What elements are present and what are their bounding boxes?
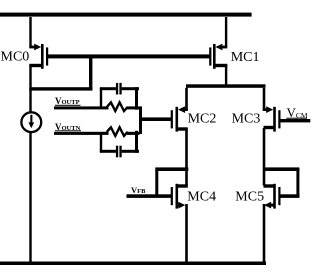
svg-text:VOUTN: VOUTN xyxy=(55,122,81,132)
svg-text:MC1: MC1 xyxy=(231,50,260,65)
svg-text:MC0: MC0 xyxy=(1,50,30,65)
svg-text:MC4: MC4 xyxy=(187,189,216,204)
svg-text:VFB: VFB xyxy=(131,185,146,195)
svg-text:VCM: VCM xyxy=(287,105,308,120)
svg-text:MC2: MC2 xyxy=(188,111,217,126)
svg-text:MC3: MC3 xyxy=(232,111,261,126)
svg-text:MC5: MC5 xyxy=(235,189,264,204)
svg-text:VOUTP: VOUTP xyxy=(55,96,80,106)
